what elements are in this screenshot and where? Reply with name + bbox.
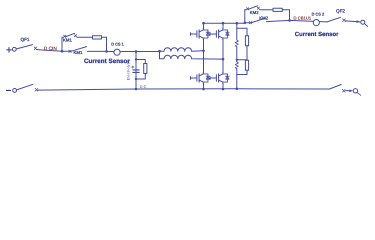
KM2 aux contact cross left (246, 8, 248, 10)
output terminal circle top (361, 20, 365, 24)
svg-text:D CS 1: D CS 1 (111, 41, 124, 46)
leg wire Q4 to bottom rail (222, 84, 224, 90)
wire QF2 to output terminal (345, 21, 360, 22)
divider mid tie (237, 59, 247, 61)
QF2 contact cross (343, 19, 346, 22)
svg-text:D CIN: D CIN (44, 46, 58, 52)
node dot divider mid (236, 59, 238, 61)
KM1 right riser (106, 37, 108, 51)
KM2 main contact wire right (267, 20, 290, 21)
KM2 main contact cross (249, 21, 251, 23)
current sensor 1 circle (114, 49, 120, 55)
divider branch A lower wire (236, 69, 238, 89)
KM2 main contact wire left (245, 22, 250, 24)
input terminal circle top (12, 47, 16, 51)
breaker QF1 pole 1 blade (16, 45, 33, 49)
wire sensor node to inductor node (136, 51, 160, 53)
breaker QF2 blade (327, 17, 341, 22)
wire to current sensor 2 (290, 20, 328, 22)
terminal - (DC input negative) (6, 89, 10, 91)
node dot right leg bottom (222, 88, 225, 91)
KM2 main blade (252, 18, 266, 22)
node dot phase B (222, 58, 225, 61)
wire to current sensor 1 (107, 51, 137, 53)
leg wire Q2 source to midpoint (222, 40, 224, 60)
wire to output terminal bottom (346, 90, 352, 92)
bleeder branch top tie (136, 60, 145, 64)
bottom DC rail (38, 89, 330, 90)
node dot divider top (236, 22, 239, 25)
current sensor 2 circle (313, 20, 319, 26)
node dot KM1 left (61, 50, 64, 53)
node dot KM1 right (105, 50, 108, 53)
electrolytic capacitor plates (133, 70, 139, 73)
svg-text:KM2: KM2 (250, 10, 259, 15)
node dot cap top (135, 58, 137, 60)
QF1 contact cross (34, 47, 37, 50)
QF2 pole 2 contact cross (342, 89, 345, 92)
node dot KM2 left (244, 22, 247, 25)
DC-link vertical wire (135, 52, 137, 89)
breaker QF1 pole 2 blade (16, 84, 33, 90)
svg-text:Current Sensor: Current Sensor (295, 31, 339, 38)
bridge right leg upper (222, 23, 224, 28)
output arrowhead bottom (349, 90, 353, 93)
inductor L1 (top) (160, 48, 204, 51)
mosfet Q3 (191, 73, 210, 84)
KM2 aux contact cross right (257, 7, 259, 9)
KM1 aux contact cross right (74, 35, 76, 37)
node dot phase A (202, 50, 205, 53)
resistor RB1 (245, 36, 248, 46)
svg-text:D CS 2: D CS 2 (312, 12, 325, 17)
branch B wire (246, 46, 248, 61)
KM2 left riser (244, 10, 246, 23)
node dot right leg top (222, 22, 225, 25)
resistor RB2 (245, 60, 248, 70)
leg wire midpoint down (203, 51, 205, 73)
divider branch B top feed (237, 28, 247, 36)
precharge resistor R2 (273, 8, 282, 11)
KM1 left riser (61, 37, 63, 51)
precharge resistor R (93, 36, 102, 39)
KM1 aux contact cross left (64, 35, 66, 37)
node dot cap branch bottom rail (135, 88, 138, 91)
node dot cap bottom (135, 78, 137, 80)
KM1 main contact cross (69, 50, 71, 52)
mosfet Q2 (210, 29, 229, 40)
input terminal circle bottom (13, 89, 17, 93)
divider branch A middle wire (236, 47, 238, 62)
divider branch A upper wire (236, 23, 238, 40)
node dot left leg bottom (202, 88, 205, 91)
svg-text:QF1: QF1 (21, 37, 30, 42)
KM2 precharge branch wire (245, 9, 290, 11)
resistor RA1 zigzag (235, 40, 238, 47)
KM2 right riser (289, 10, 291, 21)
top DC bus rail (204, 22, 245, 24)
QF1 pole 2 contact cross (35, 88, 38, 91)
node dot DC-link top (135, 50, 138, 53)
inductor L2 (bottom) (160, 55, 224, 59)
leg wire midpoint down (222, 59, 224, 72)
svg-text:KM1: KM1 (63, 38, 72, 43)
KM1 precharge branch wire (62, 36, 107, 38)
svg-text:KM2: KM2 (259, 16, 268, 21)
bridge left leg upper (203, 23, 205, 28)
terminal + (DC input positive) (7, 48, 12, 53)
leg wire Q3 to bottom rail (203, 84, 205, 90)
output arrowhead top (356, 20, 360, 23)
node dot KM2 right (288, 19, 291, 22)
KM1 main blade (71, 47, 87, 52)
bleeder resistor (144, 64, 147, 74)
branch B bottom wire (237, 70, 247, 74)
cap polarity plus (132, 66, 134, 68)
svg-text:D CB1U1: D CB1U1 (294, 15, 312, 20)
mosfet Q1 (191, 29, 210, 40)
KM1 main contact wire left (62, 50, 70, 52)
svg-text:QF2: QF2 (336, 8, 345, 13)
wire QF1 to node (37, 50, 62, 52)
leg wire Q1 source to midpoint (203, 40, 205, 51)
mosfet Q4 (210, 73, 229, 84)
KM1 aux blade (65, 33, 74, 37)
inductor L2 feed riser (159, 51, 161, 59)
KM1 main contact wire right (88, 50, 107, 52)
node dot left leg top (202, 22, 205, 25)
node dot divider bottom rail (236, 88, 239, 91)
output terminal tail top (364, 24, 367, 27)
KM2 aux blade (248, 6, 257, 10)
output terminal circle bottom (353, 89, 357, 93)
output terminal tail bottom (357, 92, 361, 95)
svg-text:KM1: KM1 (74, 50, 83, 55)
bleeder branch bottom tie (136, 74, 145, 80)
node dot inductor left (158, 50, 161, 53)
breaker QF2 pole 2 blade (330, 85, 342, 90)
svg-text:Current Sensor: Current Sensor (84, 58, 130, 65)
svg-text:Electrolytic: Electrolytic (127, 60, 131, 80)
resistor RA2 zigzag (235, 62, 238, 69)
